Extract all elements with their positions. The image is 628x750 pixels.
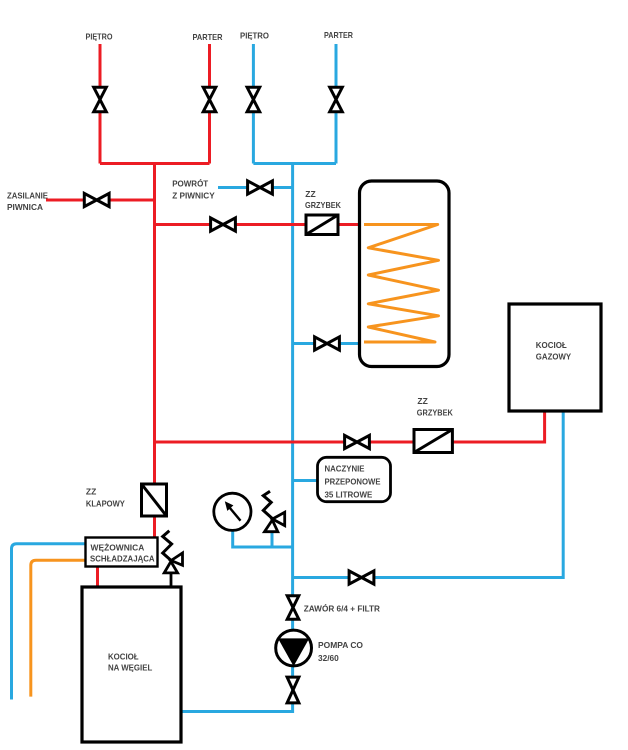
safety valve 1 (spring): [263, 491, 284, 532]
svg-text:ZZ: ZZ: [305, 189, 315, 199]
wire POWROT Z PIWNICY: [218, 186, 293, 189]
valve red PARTER: [203, 87, 216, 111]
wire red tank supply: [155, 223, 360, 226]
wire blue to gas boiler: [293, 411, 564, 578]
wire blue PIETRO riser: [252, 44, 255, 164]
valve blue PIETRO: [247, 87, 260, 111]
svg-text:PIĘTRO: PIĘTRO: [86, 32, 113, 42]
svg-text:PARTER: PARTER: [193, 32, 223, 42]
pressure gauge: [214, 493, 251, 530]
svg-text:PIWNICA: PIWNICA: [7, 202, 43, 212]
svg-text:35 LITROWE: 35 LITROWE: [325, 490, 373, 500]
svg-text:NACZYNIE: NACZYNIE: [325, 464, 365, 474]
svg-text:POMPA CO: POMPA CO: [318, 640, 363, 650]
svg-text:GRZYBEK: GRZYBEK: [305, 200, 342, 210]
svg-text:KOCIOŁ: KOCIOŁ: [108, 652, 139, 662]
wire blue main return drop: [181, 164, 293, 712]
svg-text:Z PIWNICY: Z PIWNICY: [172, 191, 215, 201]
gas boiler KOCIOL GAZOWY: [509, 304, 601, 411]
wire blue tank return: [293, 342, 360, 345]
safety valve 2 (spring, cooling coil): [163, 531, 183, 587]
valve below pump: [287, 677, 299, 703]
wire red coil boiler stub: [96, 566, 99, 587]
wire blue cooling coil feed: [12, 544, 86, 700]
valve ZASILANIE PIWNICA: [84, 193, 109, 206]
svg-text:GRZYBEK: GRZYBEK: [417, 408, 454, 418]
check valve ZZ KLAPOWY: [142, 484, 167, 516]
svg-text:WĘŻOWNICA: WĘŻOWNICA: [91, 543, 145, 553]
valve blue boiler return: [349, 571, 374, 584]
valve blue tank return: [315, 337, 340, 350]
svg-text:ZASILANIE: ZASILANIE: [7, 191, 48, 201]
valve red tank supply: [211, 218, 236, 231]
wire blue stub to expansion vessel: [293, 479, 318, 482]
svg-text:SCHŁADZAJĄCA: SCHŁADZAJĄCA: [90, 554, 155, 564]
expansion vessel NACZYNIE PRZEPONOWE: [318, 457, 391, 501]
svg-text:PRZEPONOWE: PRZEPONOWE: [325, 477, 381, 487]
svg-text:ZAWÓR 6/4 + FILTR: ZAWÓR 6/4 + FILTR: [304, 603, 380, 614]
valve red gas boiler line: [345, 435, 370, 448]
svg-text:32/60: 32/60: [318, 653, 339, 663]
wire red main supply drop: [153, 164, 156, 538]
wire red PIETRO riser: [99, 44, 102, 164]
svg-text:ZZ: ZZ: [417, 396, 427, 406]
svg-text:PARTER: PARTER: [324, 30, 353, 40]
wire blue gauge branch: [233, 529, 293, 547]
wire red PARTER riser: [208, 44, 211, 164]
wire blue PARTER riser: [335, 44, 338, 164]
wire red manifold: [100, 162, 210, 165]
wire ZASILANIE PIWNICA: [46, 199, 155, 202]
valve ZAWOR 6/4 + FILTR: [287, 596, 299, 619]
svg-text:PIĘTRO: PIĘTRO: [240, 30, 269, 40]
svg-text:NA WĘGIEL: NA WĘGIEL: [108, 663, 152, 673]
check valve ZZ GRZYBEK 2: [414, 430, 452, 453]
coal boiler KOCIOL NA WEGIEL: [82, 587, 181, 742]
valve POWROT Z PIWNICY: [248, 181, 273, 194]
svg-text:ZZ: ZZ: [86, 487, 96, 497]
valve blue PARTER: [330, 87, 343, 111]
check valve ZZ GRZYBEK 1: [306, 215, 338, 235]
wire orange cooling coil return: [31, 560, 86, 696]
tank with coil: [360, 181, 450, 367]
svg-text:POWRÓT: POWRÓT: [172, 178, 209, 189]
pump POMPA CO 32/60: [276, 630, 312, 666]
coil (orange): [364, 225, 439, 343]
svg-text:GAZOWY: GAZOWY: [536, 352, 572, 362]
valve red PIETRO: [94, 87, 107, 111]
svg-text:KOCIOŁ: KOCIOŁ: [536, 340, 567, 350]
cooling coil box WEZOWNICA: [86, 538, 158, 567]
wire blue safety valve drain: [271, 531, 274, 547]
svg-text:KLAPOWY: KLAPOWY: [86, 498, 125, 508]
wire blue manifold: [253, 162, 336, 165]
wire red to gas boiler: [155, 411, 545, 442]
